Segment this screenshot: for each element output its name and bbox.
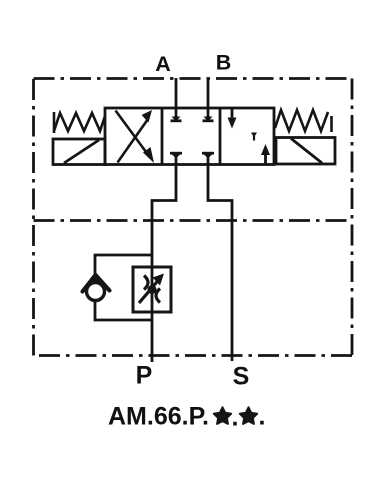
svg-text:AM.66.P.: AM.66.P. [108,403,209,431]
svg-text:.: . [259,403,266,431]
svg-text:A: A [155,52,171,76]
svg-text:B: B [216,51,232,75]
svg-text:.: . [232,404,239,432]
svg-text:S: S [233,363,250,391]
svg-text:P: P [136,362,153,390]
